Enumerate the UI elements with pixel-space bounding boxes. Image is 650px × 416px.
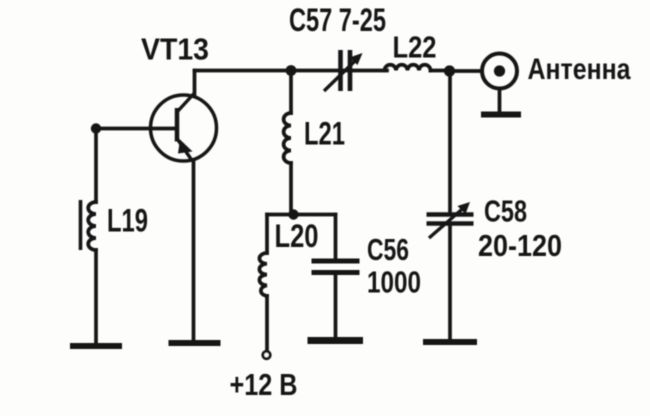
svg-text:L19: L19 (107, 203, 148, 239)
node junction top-right (444, 65, 455, 76)
svg-text:20-120: 20-120 (478, 228, 562, 263)
ground left (70, 343, 122, 349)
wire top rail middle (291, 69, 387, 73)
ground C58 (423, 339, 477, 345)
capacitor C57 (324, 50, 363, 91)
wire C56 lower (334, 275, 338, 337)
svg-text:L20: L20 (275, 218, 319, 254)
wire junction to antenna (449, 69, 482, 73)
capacitor C56 (312, 261, 360, 273)
wire C58 upper (448, 71, 452, 213)
wire emitter (192, 160, 196, 340)
wire collector vertical (193, 71, 197, 96)
svg-text:+12 В: +12 В (230, 367, 298, 402)
wire C58 lower (448, 226, 452, 340)
antenna connector (481, 54, 521, 115)
svg-text:Антенна: Антенна (528, 53, 631, 86)
inductor L19 (88, 202, 96, 250)
svg-text:C57 7-25: C57 7-25 (289, 2, 386, 38)
inductor L20 (259, 253, 267, 296)
node junction L20/C56 (288, 209, 298, 219)
terminal +12V (263, 351, 270, 358)
svg-text:C56: C56 (367, 232, 409, 267)
transistor VT13 (151, 94, 217, 162)
wire L20 lower (265, 296, 269, 351)
svg-text:VT13: VT13 (141, 32, 209, 67)
wire base (96, 127, 176, 131)
wire left branch lower (94, 250, 98, 343)
wire L21 lower (289, 163, 293, 215)
ground emitter (169, 340, 221, 346)
ground C56 (308, 337, 364, 344)
inductor L21 (284, 113, 291, 163)
svg-text:L22: L22 (393, 30, 437, 65)
wire top rail left (195, 69, 292, 73)
node junction top-left (286, 65, 297, 76)
svg-text:C58: C58 (484, 194, 527, 229)
wire left branch upper (94, 129, 98, 203)
wire L20 upper (265, 215, 269, 254)
capacitor C58 (427, 202, 474, 238)
svg-text:L21: L21 (304, 116, 345, 152)
node base junction (91, 123, 101, 133)
svg-text:1000: 1000 (367, 265, 421, 300)
L19 core (79, 200, 83, 250)
inductor L22 (385, 65, 431, 71)
wire junction horizontal (267, 213, 336, 217)
wire L21 upper (289, 71, 293, 114)
wire L22 to junction (431, 69, 450, 73)
wire C56 upper (334, 215, 338, 259)
